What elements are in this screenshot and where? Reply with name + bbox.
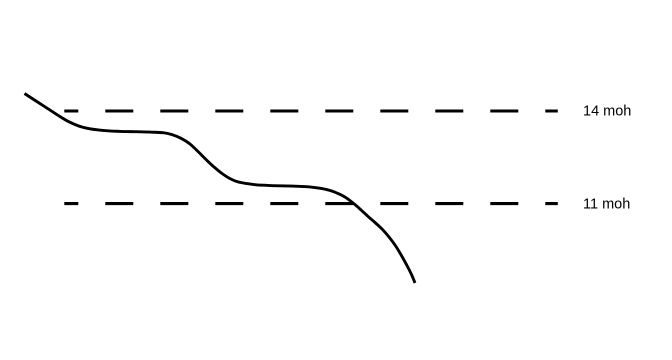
dashed level line 11 moh	[64, 202, 558, 205]
svg-text:11 moh: 11 moh	[583, 197, 630, 213]
terrain profile curve	[25, 94, 416, 284]
dashed level line 14 moh	[64, 109, 558, 112]
svg-text:14 moh: 14 moh	[583, 104, 631, 120]
